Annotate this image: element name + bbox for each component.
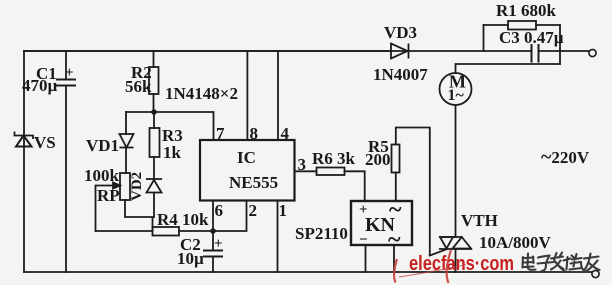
svg-text:~: ~ <box>389 197 402 223</box>
motor M <box>440 73 472 105</box>
wire node A riser <box>483 25 485 51</box>
svg-text:VTH: VTH <box>461 211 498 230</box>
resistor R5 <box>392 145 400 173</box>
zener diode VS <box>15 132 34 147</box>
wire RP wiper riser <box>96 186 121 232</box>
wire R2 branch top <box>153 51 155 67</box>
wire R3 to VD2 <box>153 157 155 179</box>
svg-text:RP: RP <box>97 186 120 205</box>
relay KN SP2110 box <box>351 201 412 245</box>
wire pin1 riser <box>277 201 279 272</box>
triac VTH <box>439 237 472 249</box>
wire node B riser <box>559 25 561 64</box>
svg-text:1: 1 <box>279 201 288 220</box>
watermark red flourish <box>394 250 466 283</box>
wire VD1 branch <box>125 112 127 134</box>
resistor R3 <box>150 128 160 157</box>
wire pin4 riser <box>277 51 279 140</box>
diode VD1 <box>120 134 134 148</box>
wire pin6 riser <box>212 201 214 231</box>
svg-text:+: + <box>214 236 223 252</box>
svg-text:elecfans·com: elecfans·com <box>409 253 514 275</box>
wire top rail right segment <box>539 50 589 52</box>
resistor R1 <box>508 21 536 30</box>
svg-text:IC: IC <box>237 148 256 167</box>
wire RP bottom <box>125 200 153 231</box>
wire R5 bottom to KN <box>395 173 397 202</box>
wire R5 top to gate <box>396 128 430 256</box>
svg-text:470µ: 470µ <box>22 76 58 95</box>
wire VD3 anode side <box>24 50 391 52</box>
svg-text:56k: 56k <box>125 77 152 96</box>
capacitor C1 <box>56 80 76 86</box>
wire pin3 stub <box>295 170 317 172</box>
svg-text:NE555: NE555 <box>229 173 278 192</box>
wire C2 branch lower <box>212 257 214 273</box>
wire R4 row left <box>96 230 153 232</box>
svg-text:1N4007: 1N4007 <box>373 65 428 84</box>
svg-text:−: − <box>359 232 368 248</box>
wire R1 branch top right <box>536 24 560 26</box>
svg-text:3: 3 <box>298 155 307 174</box>
wire VD2 bottom <box>153 193 155 217</box>
svg-text:~220V: ~220V <box>541 146 590 168</box>
wire C1 branch upper <box>65 51 67 79</box>
wire KN minus to bottom rail <box>365 245 367 272</box>
junction node pin6/pin2/C2 <box>210 228 216 234</box>
svg-text:R6 3k: R6 3k <box>312 149 356 168</box>
potentiometer RP <box>113 173 130 200</box>
wire triac gate diagonal <box>430 250 446 256</box>
svg-text:VD2: VD2 <box>129 172 145 201</box>
svg-text:R4 10k: R4 10k <box>157 210 209 229</box>
wire triac to bottom rail <box>455 249 457 272</box>
wire motor line <box>456 64 561 73</box>
svg-text:VS: VS <box>34 133 56 152</box>
wire motor to triac <box>455 105 457 237</box>
wire pin8 riser <box>246 51 248 140</box>
wire C1 branch lower <box>65 86 67 272</box>
wire KN ac2 to bottom rail <box>393 245 395 272</box>
wire C2 branch upper <box>212 231 214 250</box>
svg-text:1~: 1~ <box>448 87 465 104</box>
svg-text:7: 7 <box>216 124 225 143</box>
junction node R2/R3/VD1 <box>151 109 157 115</box>
capacitor C3 <box>532 44 539 63</box>
wire R1 branch top left <box>484 24 509 26</box>
wire R2 bottom to node <box>153 94 155 112</box>
svg-text:+: + <box>359 202 368 218</box>
wire left rail <box>23 51 25 272</box>
svg-text:R1 680k: R1 680k <box>496 1 557 20</box>
watermark elecfans.com <box>409 253 514 275</box>
diode VD2 <box>146 179 162 193</box>
resistor R6 <box>317 168 345 176</box>
diode VD3 <box>391 44 409 59</box>
svg-text:8: 8 <box>250 124 259 143</box>
svg-text:SP2110: SP2110 <box>295 224 348 243</box>
svg-text:4: 4 <box>281 124 290 143</box>
svg-text:1k: 1k <box>163 143 182 162</box>
svg-text:1N4148×2: 1N4148×2 <box>165 84 238 103</box>
wire top rail left segment <box>24 50 530 52</box>
svg-text:~: ~ <box>388 227 401 253</box>
svg-text:VD1: VD1 <box>86 136 119 155</box>
terminal bottom <box>592 270 599 277</box>
svg-text:+: + <box>65 65 74 81</box>
svg-text:C3 0.47µ: C3 0.47µ <box>499 28 564 47</box>
wire VD1 to RP <box>125 148 127 173</box>
svg-text:VD3: VD3 <box>384 23 417 42</box>
watermark chinese characters <box>523 253 600 272</box>
svg-text:200: 200 <box>365 150 391 169</box>
svg-text:2: 2 <box>249 201 258 220</box>
resistor R2 <box>149 67 159 94</box>
resistor R4 <box>153 227 180 236</box>
IC U1 NE555 box <box>200 140 295 201</box>
wire R6 to KN <box>345 171 365 201</box>
svg-text:6: 6 <box>215 201 224 220</box>
wire R4 row right to pin2 <box>179 201 247 231</box>
terminal top <box>589 49 596 56</box>
wire bottom rail <box>24 271 592 273</box>
svg-text:10µ: 10µ <box>177 249 204 268</box>
svg-text:100k: 100k <box>84 166 120 185</box>
wire R3 top <box>153 112 155 128</box>
wire node row to pin7 <box>126 112 214 140</box>
svg-text:10A/800V: 10A/800V <box>479 233 552 252</box>
capacitor C2 <box>203 251 223 257</box>
